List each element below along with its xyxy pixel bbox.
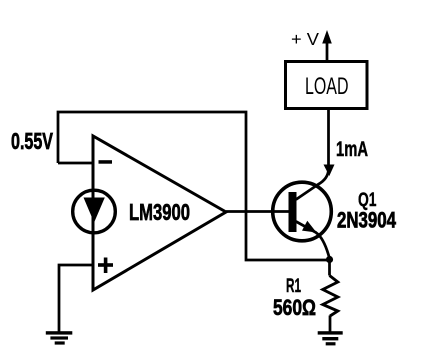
svg-text:LOAD: LOAD xyxy=(305,73,349,100)
svg-text:560Ω: 560Ω xyxy=(273,295,316,320)
svg-text:R1: R1 xyxy=(286,275,301,297)
svg-text:LM3900: LM3900 xyxy=(129,199,190,225)
svg-text:1mA: 1mA xyxy=(336,138,368,161)
svg-text:+ V: + V xyxy=(291,29,319,49)
svg-text:0.55V: 0.55V xyxy=(11,128,53,154)
svg-text:2N3904: 2N3904 xyxy=(337,208,397,233)
